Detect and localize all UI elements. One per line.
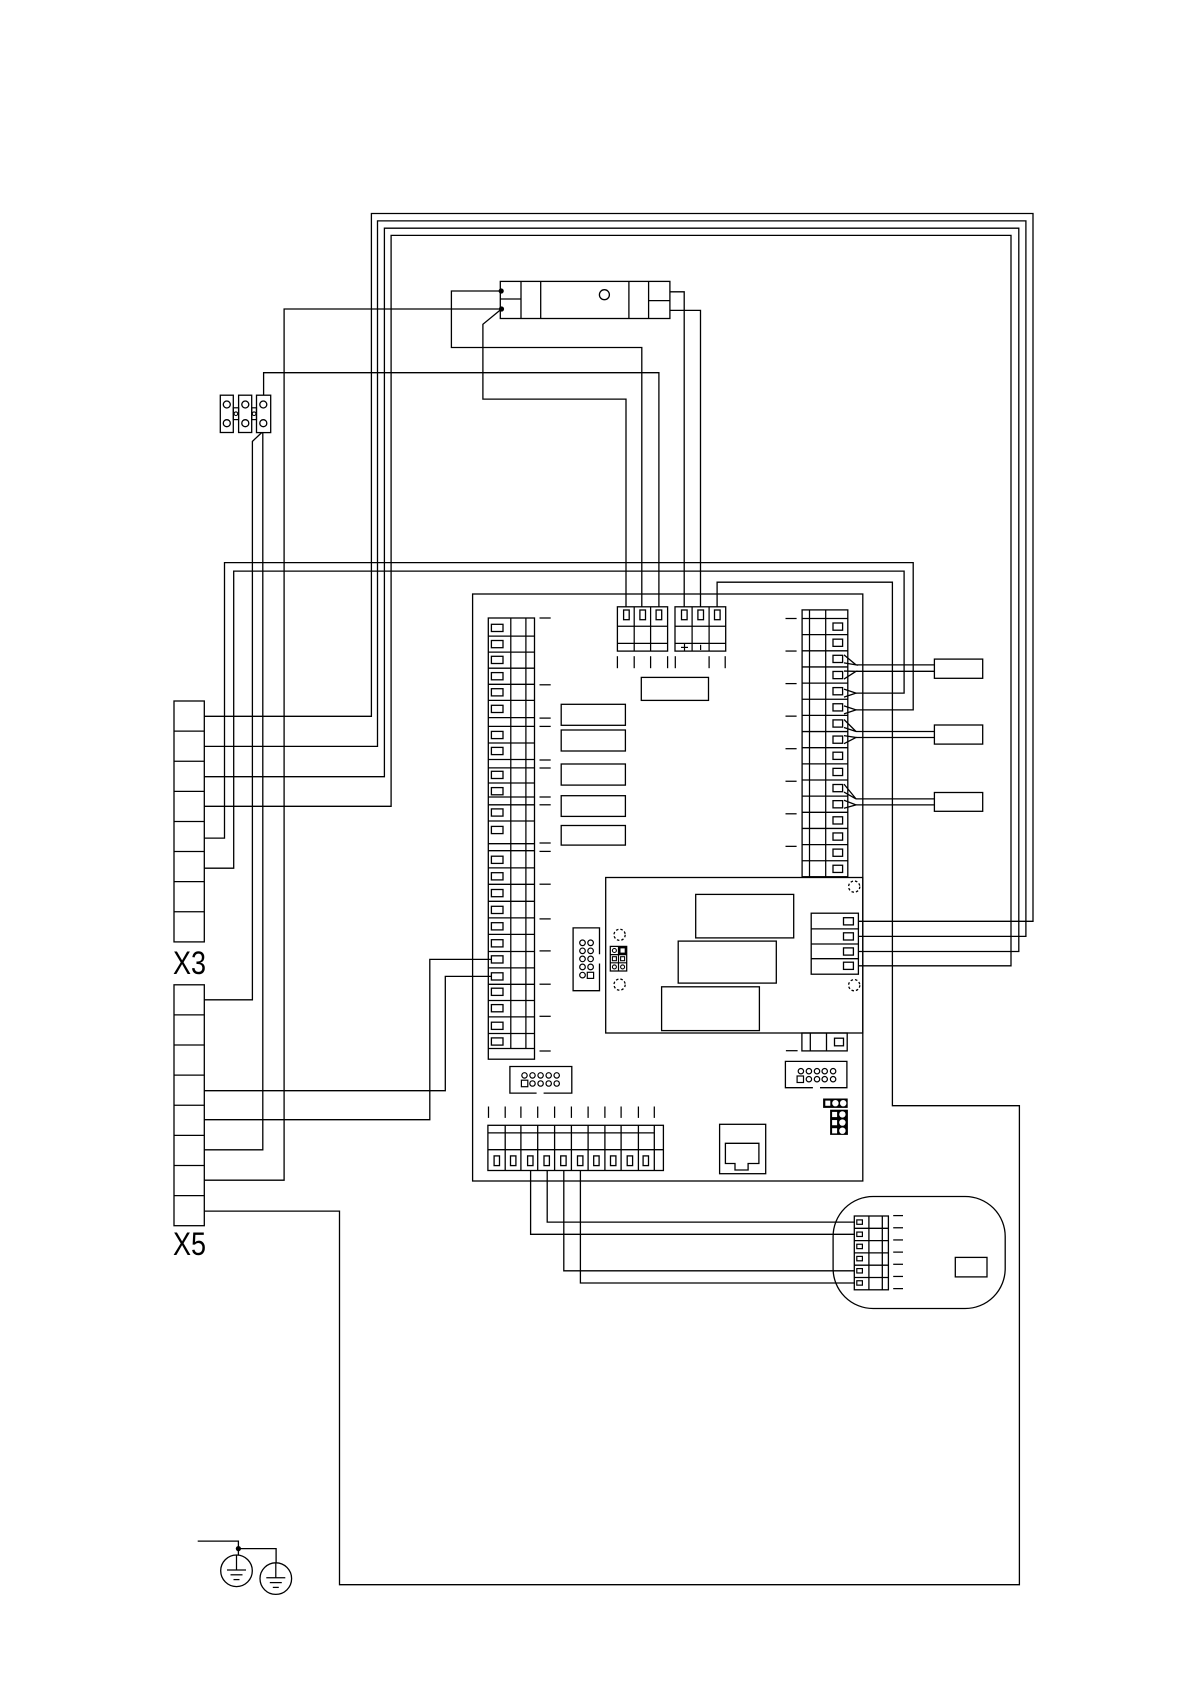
wire X3.5 to X2 pin6 <box>204 563 913 839</box>
X1-1 pin1 <box>624 610 630 620</box>
mount hole relay module NW <box>614 929 625 940</box>
relay module A2 outline <box>606 878 863 1034</box>
jumper JP3 <box>830 1110 848 1135</box>
RJ45 jack X8 outline <box>720 1124 766 1173</box>
wire X3.1 to relay K-pin1 (outer loop) <box>204 214 1033 922</box>
wire pump M1 pin1 to X1-1 pin2 <box>451 291 641 607</box>
wire X2 pin3 to sensor B1 <box>856 664 934 666</box>
crimp arrow X2 pin4 <box>844 671 856 679</box>
W1-1 screw top <box>223 401 230 408</box>
link screw 2 <box>252 412 256 416</box>
crimp arrow X2 pin6 <box>844 706 856 714</box>
PE branch wire <box>238 1549 276 1563</box>
M1 divider 1 <box>520 281 522 318</box>
W1-3 screw bottom <box>260 420 267 427</box>
crimp arrow X2 pin12 <box>844 800 856 808</box>
terminal W1-2 body <box>239 395 252 432</box>
wire pump M1 pin2 to X1-1 pin1 <box>483 309 626 607</box>
X7 pin4 pad <box>844 962 854 969</box>
terminal X1-2 body <box>675 607 726 651</box>
connector X2 pin pads <box>833 623 843 630</box>
protective earth symbol PE1 <box>221 1555 253 1587</box>
wire X6 pin5 to remote pin5 <box>564 1171 855 1271</box>
pin header J3 box <box>510 1067 572 1094</box>
X4 divider col1 <box>510 618 512 1049</box>
junction dot M1 pin2 <box>499 306 504 311</box>
wire X2 pin12 to sensor B3 <box>856 804 934 806</box>
crimp arrow X2 pin8 <box>844 736 856 744</box>
pin header J1 box <box>573 928 599 991</box>
M1 divider 4 <box>648 281 650 318</box>
sensor B3 <box>934 793 982 812</box>
jumper header JP1 on relay module <box>610 946 626 971</box>
J1 pin10 square pad <box>587 972 593 978</box>
connector X2 outline <box>802 610 848 877</box>
J2 pin square pad <box>797 1076 803 1083</box>
wire X5.7 to pump M1 pin2 <box>204 309 501 1180</box>
wire pump M1 out2 to X1-2 pin2 <box>670 310 701 606</box>
svg-text:X3: X3 <box>173 945 206 981</box>
X1-2 pin1 <box>682 610 688 620</box>
component C3 <box>561 764 625 785</box>
W1-1 screw bottom <box>223 420 230 427</box>
mount hole relay module SW <box>614 979 625 990</box>
junction dot PE <box>236 1546 241 1551</box>
relay K1 <box>696 894 794 938</box>
remote control unit A3 outline <box>833 1197 1005 1309</box>
remote component U2 <box>955 1257 987 1277</box>
solder leg X1 <box>667 656 669 668</box>
terminal W1-1 body <box>220 395 233 432</box>
X7 pin2 pad <box>844 933 854 940</box>
plus polarity mark X1-2 <box>681 646 688 648</box>
silkscreen label box U1 <box>641 677 708 700</box>
wire X5.5 to X4 pin <box>204 959 492 1119</box>
wire X6 pin3 to remote pin2 <box>531 1171 855 1235</box>
connector X6 outline <box>488 1125 664 1170</box>
connector X9 outline <box>802 1033 847 1051</box>
protective earth symbol PE2 <box>260 1563 292 1595</box>
W1-2 screw bottom <box>242 420 249 427</box>
terminal block X3 <box>174 701 204 942</box>
pin header J2 box <box>785 1061 847 1087</box>
terminal X1-1 body <box>617 607 667 651</box>
X1-1 pin3 <box>656 610 662 620</box>
crimp arrow X2 pin3 <box>844 655 856 665</box>
solder leg X1 <box>724 656 726 668</box>
M1 divider 2 <box>540 281 542 318</box>
wire X6 pin6 to remote pin6 <box>580 1171 855 1284</box>
junction dot M1 pin1 <box>499 288 504 293</box>
component C4 <box>561 796 625 817</box>
component C2 <box>561 730 625 751</box>
X7 pin3 pad <box>844 948 854 955</box>
wire X6 pin4 to remote pin1 <box>547 1171 855 1223</box>
X2 divider col1 <box>809 610 811 877</box>
sensor B2 <box>934 725 982 744</box>
X2 divider col2 <box>825 610 827 877</box>
wire X2 pin4 to sensor B1 <box>856 670 934 672</box>
terminal block X5 <box>174 985 204 1226</box>
W1-3 screw top <box>260 401 267 408</box>
ground wire PE: X1-2 pin3 to X5.8 <box>204 582 1019 1584</box>
M1 right cell split <box>649 300 670 302</box>
component C5 <box>561 826 625 846</box>
connector X10 side ticks <box>893 1215 903 1217</box>
wire X3.3 to relay K-pin3 <box>204 228 1019 951</box>
connector X4 side ticks <box>540 617 551 619</box>
X1-2 pin2 <box>698 610 704 620</box>
connector X4 pin pads <box>491 624 503 631</box>
connector X4 outline <box>488 618 534 1059</box>
component C1 <box>561 704 625 725</box>
crimp arrow X2 pin11 <box>844 784 856 799</box>
X9 side tick <box>786 1050 798 1052</box>
relay K2 <box>678 941 776 983</box>
relay connector X7 outline <box>811 913 858 974</box>
svg-text:X5: X5 <box>173 1226 206 1262</box>
wire terminal W1-3 top to X1-1 pin3 <box>264 373 659 607</box>
connector X10 pin pads <box>857 1220 863 1224</box>
mount hole relay module NE <box>849 881 860 892</box>
wire X3.2 to relay K-pin2 <box>204 221 1026 937</box>
X6 mid line <box>488 1149 664 1151</box>
wire X5.1 to terminal W1-3 bottom <box>204 433 261 1000</box>
relay K3 <box>662 987 760 1031</box>
wire pump M1 out1 to X1-2 pin1 <box>670 292 684 607</box>
pump M1 body <box>500 281 670 318</box>
RJ45 jack X8 inner <box>725 1143 759 1170</box>
link screw 1 <box>234 412 238 416</box>
connector X2 side ticks <box>786 618 797 620</box>
mount hole relay module SE <box>849 980 860 991</box>
X1-1 pin2 <box>640 610 646 620</box>
M1 center hole <box>599 290 609 300</box>
wire X3.4 to relay K-pin4 (inner loop) <box>204 235 1011 965</box>
sensor B1 <box>934 659 982 678</box>
W1-2 screw top <box>242 401 249 408</box>
crimp arrow X2 pin7 <box>844 720 856 732</box>
tick X1-2 strip <box>700 645 702 650</box>
controller board outline <box>473 594 863 1181</box>
crimp arrow X2 pin5 <box>844 689 856 697</box>
solder leg X1 <box>674 656 676 668</box>
connector X6 top ticks <box>488 1107 490 1118</box>
connector X4 row lines <box>488 635 534 637</box>
solder leg X1 <box>633 656 635 668</box>
wire X2 pin7 to sensor B2 <box>856 731 934 733</box>
X7 pin1 pad <box>844 918 854 925</box>
connector X6 pin pads <box>494 1156 499 1166</box>
link W1-2/3 <box>252 408 257 420</box>
terminal W1-3 body <box>257 395 271 432</box>
wire X5.4 to X4 pin <box>204 976 492 1090</box>
M1 divider 3 <box>628 281 630 318</box>
X4 divider col2 <box>525 618 527 1049</box>
X6 top strip line <box>488 1132 654 1134</box>
connector X2 row lines <box>802 618 848 620</box>
wire X2 pin8 to sensor B2 <box>856 737 934 739</box>
wire X5.6 to terminal W1-3 bottom <box>204 433 262 1150</box>
jumper JP2 <box>823 1099 848 1108</box>
wire X2 pin11 to sensor B3 <box>856 798 934 800</box>
J3 pin square pad <box>521 1080 527 1087</box>
wire X3.6 to X2 pin5 <box>204 571 904 868</box>
M1 left cell split <box>500 298 521 300</box>
X1-2 pin3 <box>715 610 721 620</box>
remote connector X10 outline <box>854 1216 888 1290</box>
PE wire stub <box>198 1541 239 1555</box>
solder leg X1 <box>650 656 652 668</box>
solder leg X1 <box>708 656 710 668</box>
X9 pin pad <box>835 1038 844 1046</box>
solder leg X1 <box>616 656 618 668</box>
link W1-1/2 <box>233 408 238 420</box>
